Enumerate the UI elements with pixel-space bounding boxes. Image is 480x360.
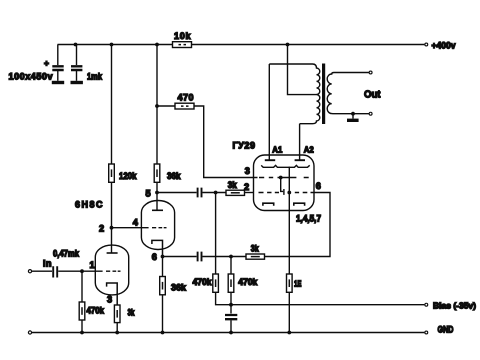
wire cap2 lead from rail	[76, 45, 78, 66]
screen grid dashed row pin 3	[259, 177, 309, 179]
wire anode A2 to transformer	[299, 124, 301, 161]
svg-text:3: 3	[245, 166, 250, 176]
wire input	[32, 270, 52, 272]
svg-text:100x450v: 100x450v	[9, 72, 53, 82]
wire 3k to GU29 pin 2	[245, 192, 254, 194]
ground bar under C2	[71, 81, 83, 84]
node screen tie junction	[279, 176, 283, 180]
svg-text:3: 3	[107, 295, 112, 305]
node plate V1b junction	[155, 191, 159, 195]
anode bar A1	[265, 159, 275, 161]
node secondary ground tap	[351, 112, 355, 116]
wire anode A1 to transformer	[268, 64, 270, 160]
svg-text:+: +	[44, 58, 49, 68]
resistor 120k plate load	[109, 164, 115, 182]
resistor 3k grid stopper lower	[246, 254, 265, 259]
svg-text:A1: A1	[272, 145, 282, 155]
anode bar A2	[295, 159, 305, 161]
capacitor bias bypass	[230, 305, 232, 333]
node grid1 GU29 / 470k junction	[214, 191, 218, 195]
svg-text:120k: 120k	[119, 171, 137, 181]
ground symbol secondary	[352, 114, 354, 119]
capacitor C2 1mk	[71, 66, 82, 70]
terminal +400v	[425, 43, 428, 46]
tube V1b 6N8S triode 2 envelope	[141, 201, 174, 250]
svg-text:3k: 3k	[128, 308, 136, 318]
svg-text:3k: 3k	[228, 180, 238, 190]
wire 470k input to ground	[81, 271, 83, 332]
cathode V1b	[152, 240, 163, 256]
resistor 36k plate load V1b	[154, 164, 160, 182]
ground bar under C1	[52, 81, 64, 84]
svg-text:36k: 36k	[171, 282, 187, 292]
terminal Out bottom	[369, 112, 372, 115]
wire transformer center tap to rail	[288, 45, 317, 95]
node cathode V1b / 36k junction	[161, 255, 165, 259]
svg-text:0,47mk: 0,47mk	[53, 248, 80, 258]
wire 36k cathode V1b to ground	[162, 257, 164, 333]
svg-text:2: 2	[244, 182, 249, 192]
capacitor 0,47mk coupling	[53, 266, 57, 277]
wire 470 branch to GU29 screen pin 3	[157, 106, 258, 178]
grid dashed V1b	[152, 227, 167, 229]
svg-text:3k: 3k	[251, 243, 260, 253]
resistor 36k cathode	[160, 277, 166, 295]
transformer secondary winding	[327, 73, 370, 114]
resistor 10k (series in rail)	[173, 42, 192, 48]
svg-text:470k: 470k	[193, 277, 213, 287]
svg-text:1E: 1E	[294, 279, 302, 289]
anode bar V1b	[152, 209, 163, 211]
cathode heater right	[294, 203, 305, 206]
node grid2 GU29 / 470k junction	[229, 255, 233, 259]
wire 470k lower grid leak to bias	[230, 257, 232, 305]
svg-text:1mk: 1mk	[87, 72, 103, 82]
resistor 470k grid leak lower	[228, 274, 234, 292]
anode lead V1b	[156, 193, 158, 211]
svg-text:GND: GND	[438, 325, 454, 335]
wire plate V1a to grid V1b	[112, 227, 149, 229]
terminal GND right	[425, 331, 428, 334]
wire 120k branch from rail to tube V1a plate	[111, 45, 113, 254]
terminal Out top	[369, 71, 372, 74]
svg-text:1,4,5,7: 1,4,5,7	[296, 213, 321, 223]
svg-text:470: 470	[178, 93, 194, 103]
node gnd 3k cathode	[115, 331, 119, 335]
anode bar V1a	[107, 252, 118, 254]
node plate V1a to grid V1b junction	[110, 226, 114, 230]
resistor 3k grid stopper upper	[226, 190, 245, 195]
node gnd bias cap	[229, 331, 233, 335]
wire cap to 3k grid stopper	[203, 192, 227, 194]
svg-text:6: 6	[152, 252, 157, 262]
tube V1a 6N8S triode 1 envelope	[95, 245, 128, 295]
capacitor coupling to GU29 pin2	[198, 188, 202, 198]
terminal Bias	[425, 303, 428, 306]
transformer core	[322, 64, 325, 125]
svg-text:6: 6	[316, 181, 321, 191]
capacitor C1 100x450v electrolytic	[52, 66, 63, 70]
svg-text:470k: 470k	[87, 306, 105, 316]
tube V2 GU29 envelope	[254, 155, 315, 211]
wire cap1 lead from rail	[57, 45, 59, 66]
transformer primary winding	[269, 64, 320, 124]
resistor 1E cathode	[287, 274, 293, 292]
svg-text:5: 5	[146, 189, 151, 199]
svg-text:470k: 470k	[238, 277, 258, 287]
node rail-120k junction	[110, 43, 114, 47]
wire cathode center line to ground	[288, 167, 290, 333]
wire cap to grid V1a	[58, 270, 102, 272]
wire screen tie down with plate tick	[281, 178, 284, 195]
wire bias bus	[231, 304, 424, 306]
terminal ground left	[28, 331, 31, 334]
cathode V1a	[107, 283, 118, 305]
svg-text:36k: 36k	[167, 171, 181, 181]
svg-text:A2: A2	[304, 145, 314, 155]
node 470 branch junction	[155, 104, 159, 108]
svg-text:4: 4	[133, 217, 139, 227]
node rail-36k junction	[155, 43, 159, 47]
svg-text:2: 2	[99, 224, 104, 234]
cathode heater left	[263, 203, 274, 206]
wire plate V1b to coupling cap	[157, 192, 197, 194]
wire 3k lower to GU29 pin 6	[265, 193, 331, 257]
svg-text:6Н8С: 6Н8С	[75, 200, 103, 210]
node grid V1a / 470k junction	[80, 269, 84, 273]
node gnd 470k input	[80, 331, 84, 335]
svg-text:Bias (-35v): Bias (-35v)	[433, 300, 476, 310]
node gnd 36k	[161, 331, 165, 335]
svg-text:1: 1	[90, 260, 95, 270]
resistor 470 screen stopper	[175, 103, 194, 109]
node gnd cathode GU29	[287, 331, 291, 335]
terminal In	[28, 270, 31, 273]
wire 36k branch from rail to tube V1b plate	[156, 45, 158, 193]
wire cap2 to 3k lower	[203, 256, 247, 258]
node control grid to cathode line	[287, 191, 291, 195]
wire ground bus	[32, 332, 424, 334]
svg-text:In: In	[43, 258, 52, 268]
wire +400v top rail	[58, 44, 425, 46]
resistor 470k grid leak upper	[213, 274, 219, 292]
beam plates line	[261, 165, 310, 167]
node rail-cap2 junction	[74, 43, 78, 47]
svg-text:10k: 10k	[174, 31, 191, 41]
control grid dashed row pins 2-6	[259, 192, 314, 194]
node bias junction	[229, 303, 233, 307]
node rail-transformer tap junction	[286, 43, 290, 47]
svg-text:Out: Out	[364, 89, 381, 101]
grid dashed V1a	[106, 270, 121, 272]
svg-text:+400v: +400v	[432, 41, 456, 51]
wire 3k to ground	[116, 323, 118, 333]
resistor 470k grid leak input	[79, 302, 85, 320]
wire 470k upper grid leak to bias	[216, 193, 231, 305]
resistor 3k cathode V1a	[114, 305, 120, 323]
capacitor coupling to GU29 pin6	[198, 252, 202, 262]
wire cathode V1b to coupling cap 2	[163, 256, 197, 258]
svg-text:ГУ29: ГУ29	[233, 141, 256, 151]
